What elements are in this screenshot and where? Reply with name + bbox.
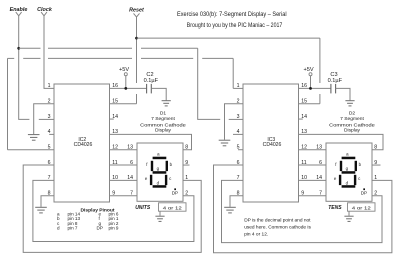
svg-text:DP: DP (361, 191, 367, 196)
svg-text:UNITS: UNITS (135, 205, 151, 211)
svg-text:2: 2 (237, 98, 240, 104)
wire Enable bus (horizontal, gaps at crossings) (19, 47, 198, 49)
svg-text:11: 11 (112, 160, 117, 166)
svg-text:4: 4 (48, 129, 51, 135)
D2 segment b (355, 161, 357, 171)
wire IC3 pin10 to D2 (segment a) (299, 179, 327, 181)
wire IC3 pin11 to D2 (segment e) (299, 164, 327, 166)
svg-text:7: 7 (319, 190, 322, 196)
svg-text:Reset: Reset (129, 8, 144, 14)
D2 segment d (342, 185, 356, 188)
svg-text:8: 8 (185, 144, 188, 150)
svg-text:Brought to you by the PIC Mani: Brought to you by the PIC Maniac – 2017 (187, 22, 283, 29)
D1 segment d (153, 185, 167, 188)
D1 decimal point (174, 188, 176, 190)
svg-text:3: 3 (237, 114, 240, 120)
svg-text:3: 3 (48, 114, 51, 120)
svg-text:6: 6 (130, 160, 133, 166)
D1 segment f (151, 161, 153, 171)
ground C2 (162, 101, 171, 106)
svg-text:0.1µF: 0.1µF (144, 78, 159, 84)
svg-text:Exercise 030(b): 7-Segment Dis: Exercise 030(b): 7-Segment Display – Ser… (177, 11, 287, 18)
svg-text:5: 5 (48, 144, 51, 150)
wire IC3 pin5 stub (238, 149, 243, 151)
svg-text:10: 10 (301, 175, 307, 181)
wire IC2 pin13 to D1 pin8 (segment c) (110, 134, 192, 149)
ground IC2 pin2 (28, 135, 40, 141)
svg-text:+5V: +5V (119, 67, 129, 73)
svg-text:CD4026: CD4026 (263, 142, 282, 148)
svg-text:D1: D1 (160, 110, 167, 116)
svg-text:7: 7 (130, 190, 133, 196)
svg-text:1: 1 (374, 175, 377, 181)
node Enable junction (17, 47, 20, 50)
label D1 heading (140, 110, 186, 133)
wire IC2 pin16 to C2 (110, 87, 147, 89)
display D1 7-segment body (137, 143, 183, 201)
wire IC2 pin5 carry out bus to IC3 pin1 (8, 58, 244, 149)
svg-text:used here. Common cathode is: used here. Common cathode is (244, 224, 311, 230)
svg-text:11: 11 (301, 160, 306, 166)
wire IC3 pin7 to D2 pin2 (segment g loop) (222, 180, 383, 242)
svg-text:1: 1 (237, 83, 240, 89)
svg-text:14: 14 (127, 175, 133, 181)
D2 segment c (354, 175, 356, 185)
svg-text:Clock: Clock (37, 7, 53, 13)
input terminal Enable (10, 7, 28, 16)
ground IC3 pin8 (224, 207, 236, 213)
svg-text:4 or 12: 4 or 12 (352, 205, 372, 210)
svg-text:7 Segment: 7 Segment (340, 116, 364, 122)
wire IC2 pin6 to D1 pin1 (segment f loop) (23, 165, 201, 252)
capacitor C2 0.1uF (144, 72, 167, 100)
wire Clock to IC2 pin1 (44, 16, 54, 89)
svg-text:8: 8 (237, 190, 240, 196)
wire IC3 pin12 to D2 (segment b) (299, 149, 327, 151)
wire IC2 pin11 to D1 (segment e) (110, 164, 138, 166)
svg-text:4 or 12: 4 or 12 (163, 205, 183, 210)
ground C3 (345, 101, 354, 106)
wire IC3 pin13 to D2 pin8 (segment c) (299, 134, 384, 149)
wire D1 pin9 DP stub (183, 164, 190, 166)
svg-text:1: 1 (185, 175, 188, 181)
note DP text (244, 217, 311, 237)
svg-text:9: 9 (301, 190, 304, 196)
svg-text:15: 15 (112, 98, 118, 104)
svg-text:d: d (57, 226, 60, 231)
svg-text:13: 13 (127, 144, 133, 150)
svg-text:Common Cathode: Common Cathode (140, 122, 186, 128)
svg-text:7: 7 (48, 175, 51, 181)
wire IC2 pin7 to D1 pin2 (segment g loop) (33, 180, 194, 241)
svg-text:Common Cathode: Common Cathode (329, 122, 375, 128)
wire Enable vertical and elbow to IC2 pin3 (19, 16, 30, 120)
svg-text:2: 2 (185, 190, 188, 196)
svg-text:8: 8 (374, 144, 377, 150)
svg-text:6: 6 (237, 160, 240, 166)
wire IC3 pin4 stub (233, 133, 243, 135)
svg-text:16: 16 (112, 83, 118, 89)
wire IC2 pin10 to D1 (segment a) (110, 179, 138, 181)
svg-text:14: 14 (316, 175, 322, 181)
wire Reset branch to IC3 pin15 (137, 38, 320, 104)
svg-text:Display: Display (344, 128, 361, 134)
wire IC3 pin9 to D2 (segment d) (299, 195, 327, 197)
wire IC3 pin8 to ground (230, 196, 243, 207)
power +5V (left) (119, 67, 129, 88)
svg-text:pin 4 or 12.: pin 4 or 12. (244, 232, 268, 238)
svg-text:1: 1 (48, 83, 51, 89)
D1 segment b (166, 161, 168, 171)
svg-text:13: 13 (301, 129, 307, 135)
ground IC2 pin8 (35, 207, 47, 213)
op IC3 CD4026 body (243, 84, 299, 202)
svg-text:9: 9 (185, 160, 188, 166)
svg-text:9: 9 (112, 190, 115, 196)
svg-text:4: 4 (237, 129, 240, 135)
svg-text:D2: D2 (349, 110, 356, 116)
label D2 heading (329, 110, 375, 133)
svg-text:DP: DP (172, 191, 178, 196)
D2 decimal point (363, 188, 365, 190)
table Display Pinout (57, 207, 119, 230)
svg-text:7: 7 (237, 175, 240, 181)
svg-text:12: 12 (112, 144, 118, 150)
svg-text:13: 13 (316, 144, 322, 150)
svg-text:6: 6 (319, 160, 322, 166)
power +5V (right) (303, 67, 313, 88)
node D1 common cathode box 4 or 12 (159, 203, 187, 216)
wire IC2 pin14 tick (110, 118, 114, 120)
wire IC2 pin3 stub (39, 118, 54, 120)
D2 segment a (342, 157, 356, 160)
op IC2 CD4026 body (54, 84, 110, 202)
svg-text:15: 15 (301, 98, 307, 104)
wire Enable drop to IC3 pin3 (198, 48, 243, 119)
svg-text:2: 2 (374, 190, 377, 196)
D2 segment g (342, 171, 356, 174)
svg-text:16: 16 (301, 83, 307, 89)
svg-text:pin 9: pin 9 (109, 226, 119, 231)
svg-text:Display: Display (155, 128, 172, 134)
ground D1 cathode (155, 216, 164, 221)
svg-text:10: 10 (112, 175, 118, 181)
wire Reset vertical to IC2 pin15 (gap at pin16 wire) (110, 17, 137, 104)
svg-text:TENS: TENS (328, 205, 342, 211)
svg-text:Enable: Enable (10, 7, 28, 13)
svg-text:DP is the decimal point and no: DP is the decimal point and not (244, 217, 311, 223)
node +5V junction right (309, 87, 312, 90)
svg-text:6: 6 (48, 160, 51, 166)
input terminal Reset (129, 8, 144, 18)
D2 segment f (340, 161, 342, 171)
wire IC3 pin14 tick (299, 118, 303, 120)
node D2 common cathode box 4 or 12 (348, 203, 376, 216)
D1 segment c (165, 175, 167, 185)
svg-text:14: 14 (112, 114, 118, 120)
wire D2 pin9 DP stub (372, 164, 381, 166)
ground IC3 pin2 (219, 140, 231, 146)
wire IC2 pin2 to ground (34, 104, 54, 134)
D2 segment e (339, 175, 341, 185)
svg-text:8: 8 (48, 190, 51, 196)
svg-text:5: 5 (237, 144, 240, 150)
svg-text:CD4026: CD4026 (74, 142, 93, 148)
svg-text:2: 2 (48, 98, 51, 104)
display D2 7-segment body (326, 143, 372, 201)
title text (177, 11, 287, 29)
D1 segment g (153, 171, 167, 174)
wire IC2 pin12 to D1 (segment b) (110, 149, 138, 151)
svg-text:0.1µF: 0.1µF (328, 78, 343, 84)
wire IC2 pin4 stub (49, 133, 54, 135)
svg-text:+5V: +5V (303, 67, 313, 73)
node Reset branch junction (135, 37, 138, 40)
input terminal Clock (37, 7, 53, 16)
wire IC2 pin9 to D1 (segment d) (110, 195, 138, 197)
capacitor C3 0.1uF (328, 72, 350, 100)
D1 segment e (150, 175, 152, 185)
svg-text:12: 12 (301, 144, 307, 150)
wire IC3 pin16 to C3 (299, 87, 331, 89)
D1 segment a (153, 157, 167, 160)
svg-text:9: 9 (374, 160, 377, 166)
svg-text:DP: DP (97, 226, 103, 231)
svg-text:pin 7: pin 7 (68, 226, 78, 231)
wire IC2 pin8 to ground (41, 196, 54, 207)
svg-text:13: 13 (112, 129, 118, 135)
wire IC3 pin6 to D2 pin1 (segment f loop) (214, 165, 392, 253)
svg-text:14: 14 (301, 114, 307, 120)
node +5V junction left (124, 87, 127, 90)
ground D2 cathode (344, 216, 353, 221)
wire IC3 pin2 to ground (225, 104, 244, 140)
svg-text:7 Segment: 7 Segment (151, 116, 175, 122)
